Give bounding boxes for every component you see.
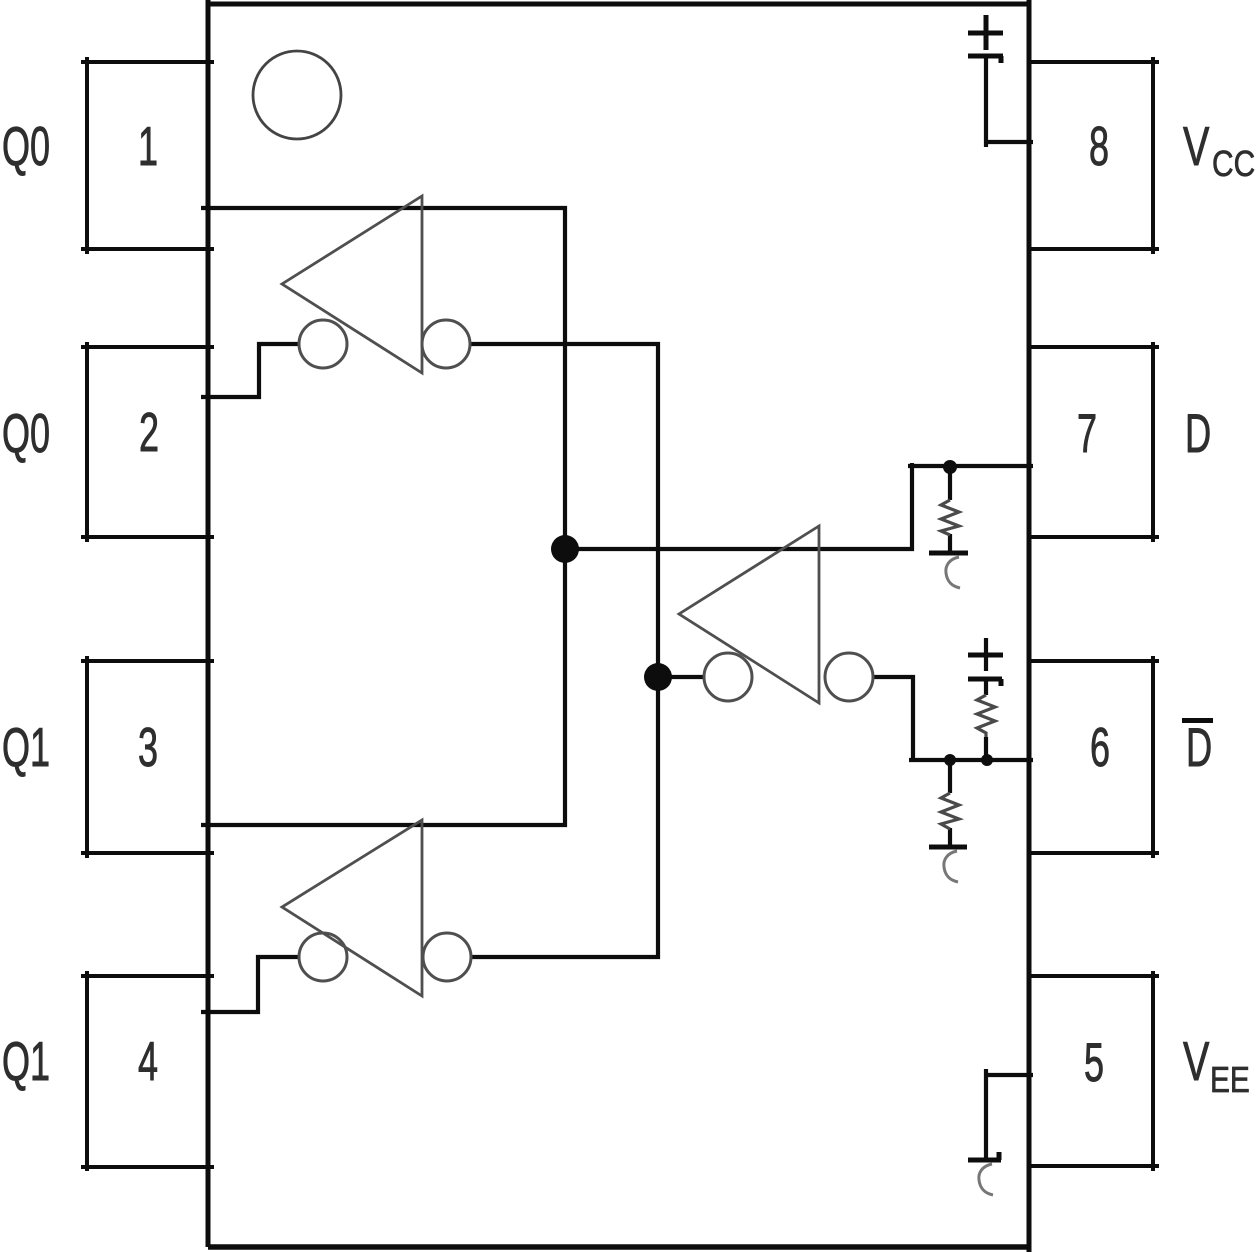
svg-text:EE: EE xyxy=(1210,1060,1250,1100)
svg-text:Q1: Q1 xyxy=(2,716,50,778)
svg-text:1: 1 xyxy=(138,115,158,177)
svg-text:4: 4 xyxy=(138,1030,158,1092)
svg-text:Q0: Q0 xyxy=(2,402,50,464)
svg-text:V: V xyxy=(1183,1032,1209,1093)
svg-text:5: 5 xyxy=(1084,1031,1104,1093)
svg-text:8: 8 xyxy=(1089,115,1109,177)
svg-text:Q0: Q0 xyxy=(2,115,50,177)
svg-text:D: D xyxy=(1185,402,1211,463)
svg-text:7: 7 xyxy=(1077,402,1097,464)
svg-text:D: D xyxy=(1186,716,1212,777)
svg-text:CC: CC xyxy=(1212,144,1255,184)
svg-text:V: V xyxy=(1183,117,1209,178)
svg-text:Q1: Q1 xyxy=(2,1030,50,1092)
svg-text:3: 3 xyxy=(138,716,158,778)
svg-text:6: 6 xyxy=(1090,716,1110,778)
svg-text:2: 2 xyxy=(139,401,159,463)
